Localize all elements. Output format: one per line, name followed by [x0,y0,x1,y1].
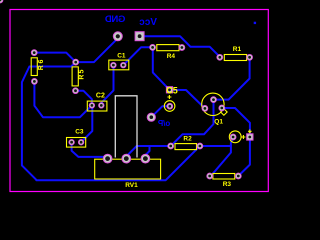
svg-text:C2: C2 [96,93,105,100]
svg-text:R5: R5 [78,69,85,80]
svg-text:o/P: o/P [157,119,170,128]
svg-text:C1: C1 [117,53,126,60]
svg-text:Vcc: Vcc [139,17,157,28]
svg-text:Q1: Q1 [214,119,223,126]
svg-text:R4: R4 [167,53,176,60]
svg-text:GND: GND [105,14,126,25]
svg-text:RV1: RV1 [125,182,138,189]
svg-text:R3: R3 [223,181,232,188]
svg-text:R2: R2 [183,135,192,142]
svg-text:R1: R1 [233,46,242,53]
svg-text:R6: R6 [38,58,45,70]
svg-text:C3: C3 [75,129,84,136]
svg-text:C5: C5 [166,85,178,95]
